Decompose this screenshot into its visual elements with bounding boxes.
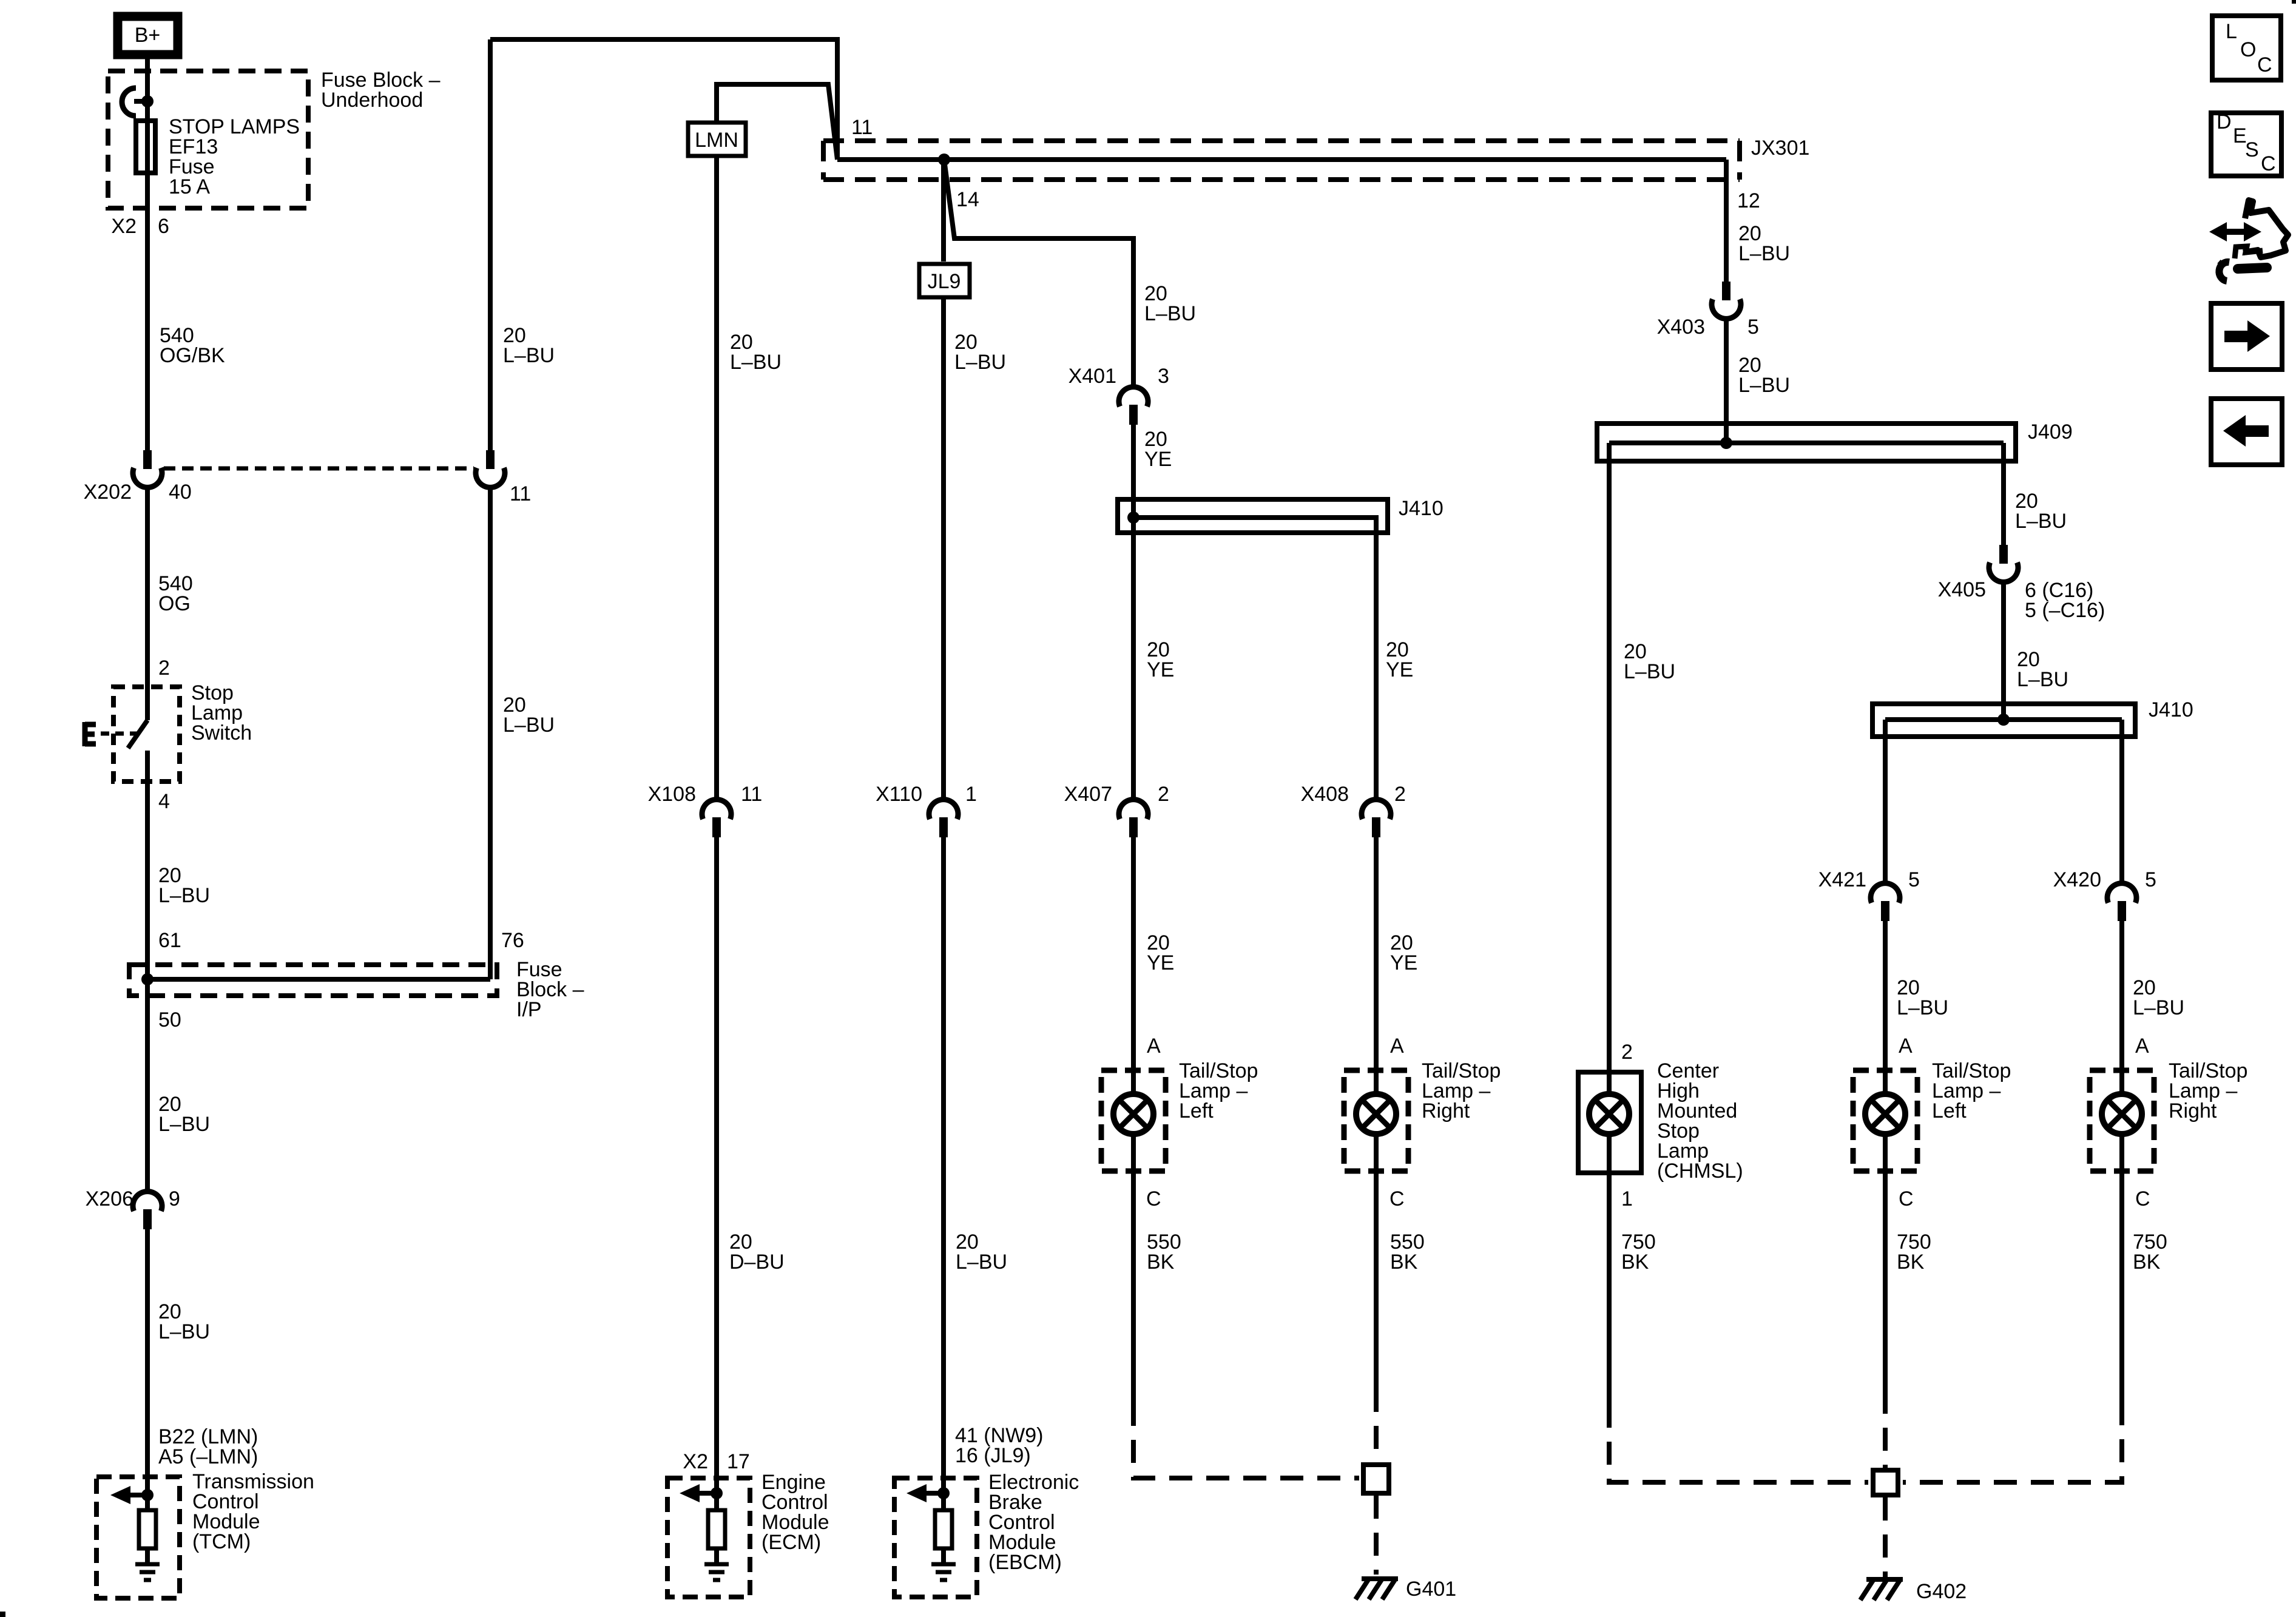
svg-text:L–BU: L–BU: [2133, 996, 2184, 1019]
svg-text:C: C: [1899, 1187, 1914, 1210]
svg-text:76: 76: [501, 929, 524, 952]
svg-text:5 (–C16): 5 (–C16): [2025, 599, 2105, 622]
svg-text:YE: YE: [1147, 951, 1174, 974]
svg-text:JX301: JX301: [1751, 137, 1809, 160]
svg-text:X108: X108: [648, 783, 696, 806]
svg-text:X421: X421: [1818, 868, 1866, 891]
svg-text:G401: G401: [1406, 1578, 1456, 1601]
svg-text:17: 17: [727, 1450, 750, 1473]
svg-text:L–BU: L–BU: [1738, 374, 1790, 397]
svg-text:L–BU: L–BU: [956, 1251, 1007, 1274]
svg-text:J410: J410: [1399, 497, 1443, 520]
svg-text:9: 9: [169, 1187, 180, 1210]
svg-text:4: 4: [158, 790, 170, 813]
svg-text:40: 40: [169, 481, 192, 504]
svg-text:5: 5: [2145, 868, 2156, 891]
svg-text:5: 5: [1908, 868, 1920, 891]
svg-text:BK: BK: [1897, 1251, 1925, 1274]
svg-text:L–BU: L–BU: [1624, 660, 1675, 683]
svg-text:14: 14: [956, 188, 979, 211]
svg-text:J409: J409: [2028, 420, 2073, 444]
svg-text:X408: X408: [1301, 783, 1349, 806]
svg-text:OG: OG: [158, 592, 191, 615]
svg-text:Right: Right: [2169, 1099, 2217, 1122]
svg-text:I/P: I/P: [516, 998, 542, 1021]
svg-text:A: A: [1390, 1035, 1404, 1058]
svg-text:11: 11: [510, 482, 531, 505]
svg-text:X2: X2: [683, 1450, 708, 1473]
svg-text:L–BU: L–BU: [158, 1113, 210, 1136]
svg-text:C: C: [2135, 1187, 2150, 1210]
svg-text:BK: BK: [1390, 1251, 1418, 1274]
svg-text:B+: B+: [135, 24, 161, 47]
svg-text:L–BU: L–BU: [730, 351, 782, 374]
svg-text:12: 12: [1737, 189, 1760, 212]
svg-text:X206: X206: [86, 1187, 133, 1210]
svg-text:Left: Left: [1179, 1099, 1214, 1122]
svg-text:S: S: [2245, 138, 2259, 161]
svg-text:YE: YE: [1147, 658, 1174, 681]
svg-text:YE: YE: [1390, 951, 1417, 974]
svg-text:L–BU: L–BU: [1738, 242, 1790, 265]
svg-text:L–BU: L–BU: [954, 351, 1006, 374]
svg-text:BK: BK: [1147, 1251, 1175, 1274]
svg-text:11: 11: [851, 116, 873, 139]
svg-text:YE: YE: [1144, 448, 1172, 471]
svg-text:D–BU: D–BU: [729, 1251, 785, 1274]
svg-text:A: A: [1147, 1035, 1161, 1058]
svg-text:Underhood: Underhood: [321, 89, 423, 112]
svg-text:D: D: [2217, 110, 2232, 133]
svg-text:L–BU: L–BU: [503, 344, 555, 367]
svg-text:2: 2: [1158, 783, 1169, 806]
svg-text:C: C: [2261, 152, 2276, 175]
svg-text:C: C: [1389, 1187, 1405, 1210]
svg-text:X420: X420: [2053, 868, 2101, 891]
svg-text:X202: X202: [84, 481, 132, 504]
svg-text:Right: Right: [1422, 1099, 1470, 1122]
svg-text:A: A: [2135, 1035, 2149, 1058]
svg-text:Switch: Switch: [191, 721, 252, 744]
svg-text:O: O: [2240, 38, 2256, 61]
svg-text:BK: BK: [2133, 1251, 2161, 1274]
svg-text:2: 2: [158, 657, 170, 680]
svg-text:A5 (–LMN): A5 (–LMN): [158, 1445, 258, 1468]
svg-text:X403: X403: [1657, 316, 1705, 339]
svg-text:11: 11: [741, 783, 762, 806]
svg-text:(CHMSL): (CHMSL): [1657, 1160, 1743, 1183]
svg-text:3: 3: [1158, 365, 1169, 388]
svg-text:OG/BK: OG/BK: [160, 344, 225, 367]
svg-text:5: 5: [1747, 316, 1759, 339]
svg-text:LMN: LMN: [695, 129, 738, 152]
svg-text:X407: X407: [1064, 783, 1112, 806]
svg-text:61: 61: [158, 929, 181, 952]
svg-text:2: 2: [1621, 1041, 1633, 1064]
svg-text:2: 2: [1394, 783, 1406, 806]
svg-text:L–BU: L–BU: [158, 1320, 210, 1343]
svg-text:L–BU: L–BU: [503, 714, 555, 737]
svg-text:1: 1: [965, 783, 977, 806]
svg-text:L–BU: L–BU: [1144, 302, 1196, 325]
svg-text:X110: X110: [876, 783, 922, 806]
svg-text:16 (JL9): 16 (JL9): [955, 1444, 1031, 1467]
svg-text:J410: J410: [2149, 698, 2193, 721]
svg-text:L–BU: L–BU: [2017, 668, 2068, 691]
svg-text:1: 1: [1621, 1187, 1633, 1210]
svg-text:JL9: JL9: [928, 270, 961, 293]
svg-text:L: L: [2226, 20, 2237, 43]
svg-text:X405: X405: [1938, 578, 1986, 601]
svg-text:L–BU: L–BU: [158, 884, 210, 907]
svg-text:X401: X401: [1069, 365, 1116, 388]
svg-text:X2: X2: [111, 215, 137, 238]
svg-text:A: A: [1899, 1035, 1913, 1058]
svg-text:BK: BK: [1621, 1251, 1649, 1274]
svg-text:(EBCM): (EBCM): [988, 1551, 1062, 1574]
svg-text:C: C: [2257, 53, 2272, 76]
svg-text:G402: G402: [1916, 1580, 1967, 1603]
svg-text:6: 6: [158, 215, 169, 238]
svg-text:15 A: 15 A: [169, 175, 210, 198]
svg-text:(ECM): (ECM): [761, 1531, 821, 1554]
svg-text:50: 50: [158, 1008, 181, 1031]
svg-text:L–BU: L–BU: [2015, 510, 2067, 533]
svg-text:C: C: [1146, 1187, 1161, 1210]
svg-text:L–BU: L–BU: [1897, 996, 1948, 1019]
svg-text:Left: Left: [1932, 1099, 1967, 1122]
svg-text:YE: YE: [1386, 658, 1413, 681]
svg-text:(TCM): (TCM): [192, 1530, 251, 1553]
